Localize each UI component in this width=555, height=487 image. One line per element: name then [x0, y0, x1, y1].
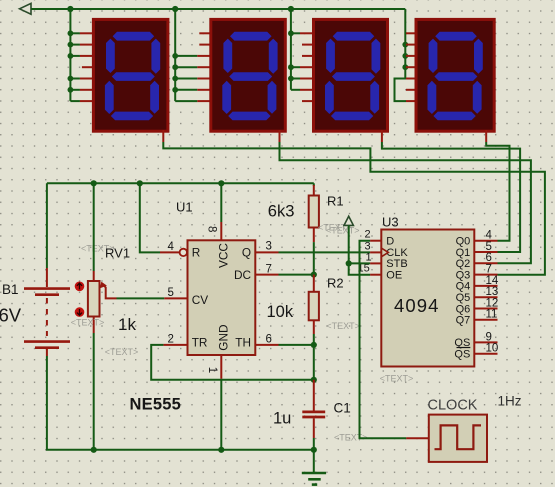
junction: VCC rail / U1 reset — [137, 180, 143, 186]
svg-text:4: 4 — [168, 241, 175, 253]
svg-text:14: 14 — [486, 275, 499, 287]
wire: top segment bus rail — [31, 8, 405, 10]
junction: ground rail / U1 GND — [218, 447, 224, 453]
U3 CLK edge-trigger mark — [381, 248, 388, 257]
resistor R1 6k3 — [313, 185, 315, 196]
7-segment display DS3 — [314, 19, 388, 131]
wire: R2 bottom to TH node — [313, 334, 315, 345]
svg-text:U1: U1 — [176, 200, 193, 215]
junction: VCC rail / RV1 — [91, 180, 97, 186]
svg-text:TH: TH — [235, 336, 251, 350]
wire: CLOCK to U3 D — [360, 241, 407, 439]
svg-text:8: 8 — [206, 226, 218, 232]
RV1 increment button — [75, 282, 85, 292]
wire: RV1 bottom to ground rail — [93, 333, 95, 450]
U3 left pins D CLK STB OE — [370, 240, 381, 242]
wire: U1 TH to R2 bottom — [279, 344, 314, 346]
7-segment display DS1 — [93, 19, 167, 131]
U1 reset pin 4 with inversion bubble — [160, 251, 179, 253]
svg-text:NE555: NE555 — [130, 396, 181, 414]
shift register U3 4094 body — [381, 230, 474, 367]
svg-text:6: 6 — [486, 252, 492, 264]
op-amp/timer U1 NE555 body — [188, 240, 256, 355]
svg-text:1: 1 — [206, 367, 218, 373]
svg-text:R: R — [192, 246, 201, 260]
svg-text:7: 7 — [486, 264, 492, 276]
svg-text:11: 11 — [486, 309, 498, 321]
wire: R1 bottom to DC node — [313, 242, 315, 275]
junction: top rail / display2 bus — [172, 6, 178, 12]
display DS1 common pin — [162, 130, 164, 142]
svg-text:Q: Q — [242, 246, 251, 260]
svg-text:QS: QS — [454, 349, 470, 361]
U1 VCC pin 8 — [220, 183, 222, 222]
wire: power to U3 STB — [349, 262, 370, 264]
wire: segment bus for display DS3 — [290, 9, 292, 90]
svg-text:U3: U3 — [382, 215, 399, 230]
svg-text:Q0: Q0 — [456, 236, 471, 248]
svg-text:1: 1 — [366, 251, 372, 263]
svg-text:Q4: Q4 — [456, 281, 471, 293]
U3 right pins Q0-Q7 QS — [474, 240, 497, 242]
svg-text:DC: DC — [234, 268, 252, 282]
wire: U1 DC to R1/R2 node — [279, 274, 314, 276]
svg-text:4: 4 — [486, 230, 493, 242]
display display DS1 segment pins — [80, 32, 95, 34]
wire: U1 Q to U3 CLK — [279, 251, 371, 253]
U1 TH pin 6 — [255, 344, 278, 346]
wire: U1 TR to C1 node — [151, 345, 314, 380]
svg-text:Q6: Q6 — [456, 303, 471, 315]
svg-text:1k: 1k — [118, 315, 136, 334]
resistor R2 10k — [313, 275, 315, 292]
clock waveform symbol — [435, 425, 482, 449]
U3 QS-bar overline — [457, 347, 471, 349]
svg-text:9: 9 — [486, 331, 492, 343]
svg-text:Q1: Q1 — [456, 247, 471, 259]
svg-text:C1: C1 — [334, 401, 351, 416]
svg-text:4094: 4094 — [394, 295, 440, 316]
wire: rail corner to R1 — [313, 183, 315, 186]
svg-text:12: 12 — [486, 297, 499, 309]
svg-text:CV: CV — [192, 293, 209, 307]
U1 TR pin 2 — [163, 344, 187, 346]
junction: power / STB — [346, 260, 352, 266]
wire: DS4 common to U3 Q0 — [486, 142, 509, 241]
U1 DC pin 7 — [255, 274, 278, 276]
svg-text:6V: 6V — [0, 305, 22, 326]
svg-text:CLOCK: CLOCK — [428, 398, 478, 414]
wire: RV1 wiper to U1 CV pin 5 — [117, 297, 165, 299]
svg-text:10: 10 — [486, 343, 499, 355]
RV1 decrement button — [75, 307, 85, 317]
svg-text:VCC: VCC — [217, 243, 231, 268]
wire: DS1 common to U3 Q3 — [163, 142, 545, 275]
svg-text:2: 2 — [168, 333, 174, 345]
svg-text:R1: R1 — [327, 194, 344, 209]
clock generator CLOCK — [406, 437, 429, 439]
svg-text:<TEXT>: <TEXT> — [105, 347, 139, 357]
svg-text:13: 13 — [486, 286, 499, 298]
svg-text:OE: OE — [386, 270, 402, 282]
wire: C1 bottom to ground rail — [313, 438, 315, 450]
svg-text:Q3: Q3 — [456, 269, 471, 281]
wire: TH node to C1 node — [313, 345, 315, 380]
svg-text:1u: 1u — [273, 410, 291, 428]
wire: VCC rail to U1 R pin — [140, 183, 160, 252]
svg-text:2: 2 — [365, 229, 371, 241]
svg-text:STB: STB — [386, 258, 407, 270]
svg-text:Q7: Q7 — [456, 315, 471, 327]
display display DS2 segment pins — [197, 55, 212, 57]
7-segment display DS4 — [416, 19, 494, 131]
U1 GND pin 1 — [220, 355, 222, 379]
svg-text:1Hz: 1Hz — [498, 394, 522, 409]
wire: segment bus for display DS2 — [174, 9, 176, 101]
wire: DS3 common to U3 Q1 — [382, 142, 520, 252]
svg-text:6k3: 6k3 — [268, 203, 295, 221]
junction: top rail / display1 bus — [67, 6, 73, 12]
wire: segment bus for display DS4 — [395, 9, 407, 101]
input terminal arrow (top-left) — [20, 3, 32, 14]
wire: VCC rail to RV1 top — [93, 183, 95, 271]
display display DS3 segment pins — [300, 32, 315, 34]
display DS4 common pin — [485, 130, 487, 142]
svg-text:Q5: Q5 — [456, 292, 471, 304]
wire: segment bus for display DS1 — [69, 9, 71, 101]
svg-text:5: 5 — [486, 241, 492, 253]
svg-text:7: 7 — [266, 264, 272, 276]
7-segment display DS2 — [211, 19, 285, 131]
wire: VCC rail — [47, 182, 314, 184]
display DS3 common pin — [381, 130, 383, 142]
U1 Q output pin 3 — [255, 251, 278, 253]
svg-text:<TEXT>: <TEXT> — [71, 317, 105, 327]
svg-text:D: D — [386, 236, 394, 248]
svg-text:R2: R2 — [327, 276, 344, 291]
wire: DS2 common to U3 Q2 — [280, 142, 531, 263]
junction: top rail / display3 bus — [288, 6, 294, 12]
svg-text:B1: B1 — [2, 282, 19, 297]
wire: power terminal to U3 OE — [349, 225, 370, 274]
svg-text:TR: TR — [192, 336, 208, 350]
svg-text:3: 3 — [266, 241, 272, 253]
svg-text:5: 5 — [168, 287, 174, 299]
junction: VCC rail / U1 VCC — [218, 180, 224, 186]
svg-text:<TEXT>: <TEXT> — [380, 374, 414, 384]
junction: ground rail / RV1 bottom — [91, 447, 97, 453]
junction: ground rail / C1 / ground — [311, 447, 317, 453]
wire: VCC rail to battery + — [46, 183, 48, 268]
RV1 wiper arm — [104, 286, 117, 299]
ground — [313, 450, 315, 473]
svg-text:GND: GND — [217, 324, 231, 350]
battery B1 6V — [24, 268, 70, 356]
svg-text:RV1: RV1 — [105, 246, 130, 261]
junction: R2/TH node — [311, 342, 317, 348]
junction: TR loop / C1 top — [311, 377, 317, 383]
display DS4 segment pins — [406, 32, 418, 34]
svg-text:<TEXT>: <TEXT> — [326, 321, 360, 331]
power terminal arrow — [344, 216, 353, 225]
svg-text:Q2: Q2 — [456, 258, 471, 270]
potentiometer RV1 — [93, 271, 95, 281]
display DS2 common pin — [279, 130, 281, 142]
svg-text:6: 6 — [266, 333, 272, 345]
junction: R1/R2/DC node — [311, 272, 317, 278]
capacitor C1 1u — [313, 380, 315, 411]
wire: battery - to ground rail — [47, 356, 314, 450]
svg-text:10k: 10k — [267, 303, 294, 321]
